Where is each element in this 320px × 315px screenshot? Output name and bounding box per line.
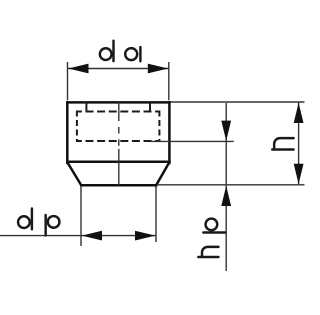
outline taper left	[68, 163, 82, 186]
arrow right of d a	[148, 64, 168, 74]
label h p rotated	[198, 219, 225, 257]
outline left edge	[66, 102, 69, 163]
dimension h extension and line	[157, 102, 305, 185]
outline top edge	[67, 101, 169, 104]
outline right edge	[168, 102, 171, 163]
arrow left of d a	[68, 64, 88, 74]
arrow left of d p	[82, 231, 102, 241]
dimension d p extension and line	[0, 186, 156, 246]
dimension d a extension and line	[68, 62, 169, 100]
label d a	[100, 41, 141, 62]
outline bottom edge	[81, 184, 156, 187]
outline taper right	[156, 163, 169, 186]
arrow down to h p top	[221, 121, 231, 141]
label h rotated	[272, 138, 293, 149]
outline shoulder line	[67, 160, 169, 163]
arrow up to h p bottom	[221, 186, 231, 206]
dimension h p extension and line	[151, 103, 234, 271]
part body outline (weld nut side view)	[67, 102, 169, 185]
countersink edges	[86, 102, 150, 112]
label d p	[18, 209, 59, 236]
arrow bottom of h	[294, 164, 304, 184]
centerline	[118, 102, 120, 185]
arrow top of h	[294, 103, 304, 123]
arrow right of d p	[135, 231, 155, 241]
hidden thread hole (dashed)	[77, 111, 159, 143]
